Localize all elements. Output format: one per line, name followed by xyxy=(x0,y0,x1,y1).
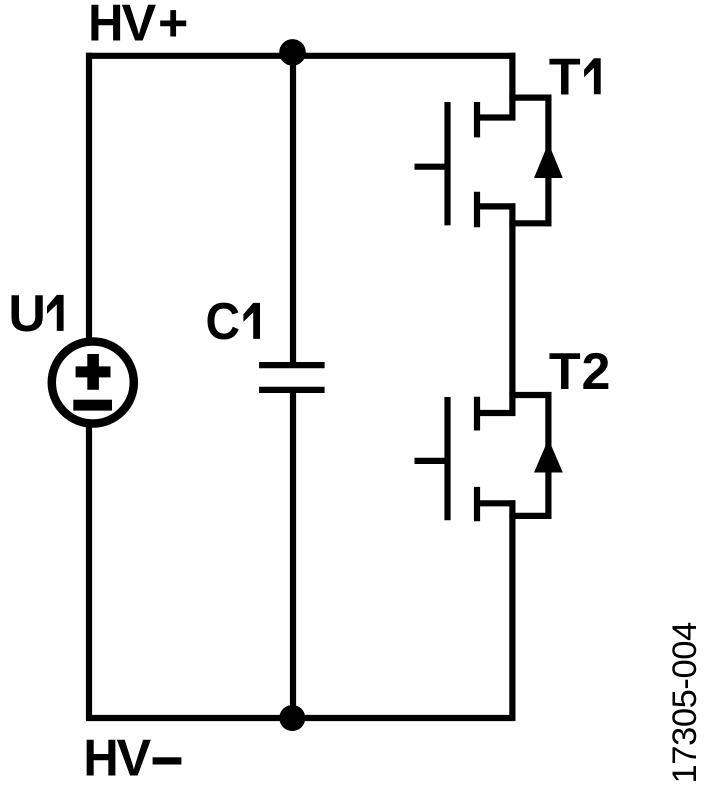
transistor T2 source horizontal xyxy=(474,500,515,506)
svg-text:T: T xyxy=(549,343,581,401)
svg-text:T: T xyxy=(549,49,581,107)
wire HV- bottom rail xyxy=(86,715,515,721)
transistor T1 channel top stub xyxy=(474,102,480,137)
transistor T2 label xyxy=(549,343,611,401)
transistor T1 source horizontal xyxy=(474,203,515,209)
node HV- label xyxy=(83,728,181,787)
transistor T2 right vertical (body-diode path) xyxy=(545,392,551,519)
svg-text:V: V xyxy=(117,730,152,788)
transistor T1 label xyxy=(549,49,601,107)
node junction dot bottom (HV- / C1) xyxy=(279,705,305,731)
transistor T2 channel top stub xyxy=(474,397,480,431)
transistor T2 top-right branch xyxy=(509,392,551,398)
wire T2 source to HV- rail xyxy=(509,500,515,721)
svg-text:2: 2 xyxy=(582,343,611,401)
transistor T2 channel bottom stub xyxy=(474,487,480,521)
wire left vertical lower (U1 to HV- rail) xyxy=(86,425,92,722)
wire C1 bottom lead xyxy=(290,388,296,718)
transistor T2 arrow xyxy=(534,439,563,473)
wire HV+ top rail xyxy=(86,53,515,59)
wire C1 top lead xyxy=(290,56,296,363)
svg-text:C: C xyxy=(205,292,240,350)
transistor T1 drain horizontal xyxy=(474,114,515,120)
transistor T1 drain vertical wire xyxy=(509,53,515,121)
transistor T1 gate vertical xyxy=(444,102,450,225)
transistor T2 gate vertical xyxy=(444,397,450,520)
node junction dot top (HV+ / C1) xyxy=(279,39,306,66)
voltage source U1 label xyxy=(8,285,63,343)
wire left vertical upper (HV+ rail to U1) xyxy=(86,53,92,341)
transistor T1 arrow xyxy=(534,143,563,178)
voltage source U1 plus sign xyxy=(76,354,111,390)
svg-text:H: H xyxy=(88,0,123,52)
node HV+ label xyxy=(88,0,188,53)
transistor T1 right vertical (body-diode path) xyxy=(545,95,551,227)
transistor T1 top-right branch xyxy=(509,94,551,100)
wire T1 source to T2 drain (switch node) xyxy=(509,203,515,416)
transistor T1 bottom-right branch xyxy=(509,220,551,226)
capacitor C1 label xyxy=(205,292,260,350)
svg-text:+: + xyxy=(158,0,188,53)
voltage source U1 minus sign xyxy=(73,400,112,411)
transistor T2 bottom-right branch xyxy=(509,513,551,519)
svg-text:U: U xyxy=(8,285,46,343)
transistor T1 channel bottom stub xyxy=(474,192,480,228)
capacitor C1 bottom plate xyxy=(259,387,325,393)
transistor T2 gate lead xyxy=(415,458,451,464)
svg-text:H: H xyxy=(83,728,118,787)
svg-text:17305-004: 17305-004 xyxy=(666,622,704,784)
svg-text:V: V xyxy=(122,0,157,53)
capacitor C1 top plate xyxy=(259,362,325,368)
transistor T2 drain horizontal xyxy=(474,410,515,416)
transistor T1 gate lead xyxy=(415,164,451,170)
voltage source U1 circle xyxy=(52,342,134,424)
